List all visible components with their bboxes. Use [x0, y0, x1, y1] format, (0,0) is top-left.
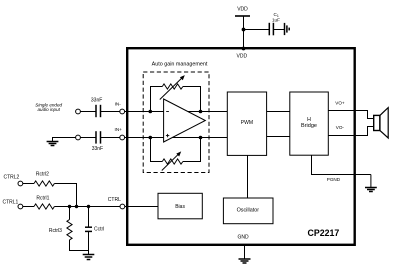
svg-text:audio input: audio input — [37, 107, 60, 112]
svg-text:33nF: 33nF — [91, 97, 102, 103]
variable resistor (bottom) — [162, 151, 183, 170]
speaker LS1 — [374, 108, 389, 138]
oscillator block — [223, 198, 273, 224]
wire PWM to H bridge (top) — [267, 111, 290, 113]
svg-text:Rctrl3: Rctrl3 — [49, 228, 62, 234]
op-amp U1 (differential) — [164, 99, 206, 142]
svg-text:VDD: VDD — [237, 7, 248, 13]
bias block — [158, 193, 202, 219]
svg-text:Oscillator: Oscillator — [237, 207, 260, 213]
svg-text:Rctrl2: Rctrl2 — [36, 171, 49, 177]
svg-text:Bridge: Bridge — [301, 123, 317, 129]
svg-text:PWM: PWM — [241, 120, 253, 126]
capacitor 33nF (top) — [91, 97, 102, 117]
wire VO- to speaker — [328, 127, 373, 136]
svg-text:Rctrl1: Rctrl1 — [36, 196, 49, 202]
svg-text:H: H — [307, 117, 311, 123]
auto gain management dashed box — [143, 72, 209, 173]
terminal CTRL2 — [18, 181, 23, 186]
junction dot VDD pin at box edge — [242, 47, 246, 51]
wire Rctrl1 to CTRL pin — [54, 206, 120, 208]
junction dot CTRL2 branch — [75, 205, 78, 208]
pin CTRL — [120, 204, 125, 209]
svg-text:CTRL: CTRL — [108, 197, 121, 203]
svg-text:CP2217: CP2217 — [308, 228, 340, 238]
svg-text:PGND: PGND — [327, 177, 341, 182]
svg-text:IN+: IN+ — [115, 127, 123, 132]
wire H bridge to PGND — [312, 155, 371, 174]
svg-text:VO-: VO- — [336, 125, 345, 130]
svg-text:33nF: 33nF — [92, 146, 103, 152]
svg-text:1uF: 1uF — [272, 18, 280, 23]
wire VDD node to C1 — [244, 29, 270, 31]
svg-text:IN-: IN- — [115, 102, 122, 107]
pin IN+ — [120, 135, 125, 140]
junction dot feedback bottom-right — [199, 136, 203, 140]
ground (GND pin) — [239, 259, 251, 263]
wire Rctrl3 to ground node — [70, 240, 89, 251]
wire C1 to ground — [273, 29, 284, 31]
input terminal (bottom) — [76, 135, 81, 140]
wire PWM to H bridge (bottom) — [267, 136, 290, 138]
wire IN+ line (input terminal to PWM) — [52, 137, 228, 139]
svg-text:VO+: VO+ — [335, 101, 345, 106]
ground (PGND) — [365, 175, 377, 192]
svg-text:Cctrl: Cctrl — [94, 227, 104, 233]
wire feedback loop (bottom) — [151, 138, 163, 162]
wire PWM to oscillator — [247, 155, 249, 198]
capacitor C1 — [269, 12, 280, 35]
ground (CTRL filter) — [83, 255, 95, 260]
CP2217 device boundary box — [127, 48, 355, 245]
capacitor Cctrl — [85, 207, 104, 255]
svg-text:CTRL1: CTRL1 — [3, 200, 19, 206]
svg-text:VDD: VDD — [237, 53, 248, 59]
variable resistor (top) — [160, 75, 185, 99]
capacitor 33nF (bottom) — [92, 131, 103, 152]
pin IN- — [120, 109, 125, 114]
power VDD symbol — [235, 7, 250, 17]
wire CTRL1 to resistor — [23, 206, 34, 208]
wire IN- line (input terminal to PWM) — [81, 111, 228, 113]
wire VO+ to speaker — [328, 111, 373, 119]
junction dot VDD node — [242, 28, 246, 32]
wire CTRL2 to resistor — [23, 183, 34, 185]
ground (audio input return) — [47, 138, 59, 146]
resistor Rctrl3 (vertical) — [49, 207, 72, 240]
wire VDD vertical — [243, 16, 245, 49]
svg-text:GND: GND — [237, 235, 249, 241]
svg-text:Auto gain management: Auto gain management — [152, 61, 208, 67]
wire GND pin — [244, 245, 246, 259]
svg-text:CTRL2: CTRL2 — [4, 174, 20, 180]
svg-text:Bias: Bias — [175, 204, 185, 210]
junction dot feedback top-right — [199, 110, 203, 114]
terminal CTRL1 — [18, 204, 23, 209]
wire CTRL to bias — [125, 206, 158, 208]
junction dot Cctrl branch — [87, 205, 90, 208]
label Single ended audio input — [35, 102, 62, 112]
PWM block — [227, 92, 266, 155]
junction dot feedback bottom-left — [149, 136, 153, 140]
wire feedback loop (top) — [151, 87, 163, 112]
ground (VDD decoupling, rotated) — [285, 23, 290, 35]
resistor Rctrl2 — [34, 171, 54, 186]
resistor Rctrl1 — [34, 196, 54, 209]
H bridge block — [290, 92, 329, 155]
junction dot feedback top-left — [149, 110, 153, 114]
wire Rctrl2 to CTRL1 node — [54, 184, 76, 207]
input terminal (top) — [76, 109, 81, 114]
junction dot Rctrl3 branch — [68, 205, 71, 208]
